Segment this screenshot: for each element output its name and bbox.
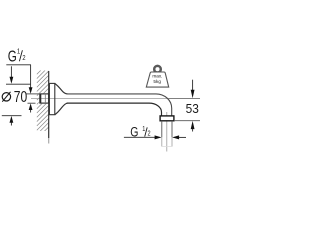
dimension 53: bottom arrow [192, 129, 194, 132]
dimension 53: top reference line (axis extension darker part) [168, 98, 200, 100]
dimension diameter 70: top extension line [6, 83, 30, 85]
dimension G1/2 bottom: left arrow from right side [172, 135, 179, 139]
dimension 53: top arrow [192, 80, 194, 91]
dimension G1/2 top-left: underline leader [6, 64, 31, 66]
dimension diameter 70: diameter symbol [2, 93, 10, 101]
svg-text:2: 2 [22, 54, 26, 62]
flange base plate [49, 83, 54, 114]
thread cutout background [39, 93, 49, 103]
wall surface line [48, 71, 50, 138]
svg-text:53: 53 [186, 102, 199, 116]
svg-text:1: 1 [142, 125, 146, 133]
collar band on outlet [160, 116, 174, 121]
wall hatching [37, 57, 50, 152]
dimension diameter 70: bottom arrow [10, 116, 14, 123]
flange bell top profile [55, 84, 68, 94]
vertical centerline of outlet [166, 112, 168, 152]
svg-text:max.: max. [152, 73, 162, 78]
svg-text:G: G [8, 48, 17, 65]
dimension G1/2 top-left: up arrow to thread bottom [29, 103, 33, 110]
svg-text:70: 70 [14, 88, 28, 106]
dimension diameter 70: top arrow [10, 66, 12, 77]
max 5kg weight icon: handle ring [154, 66, 161, 73]
pipe top contour with outer bend arc [67, 94, 172, 116]
svg-text:1: 1 [17, 48, 21, 56]
svg-text:5kg: 5kg [153, 79, 161, 84]
dimension 53: bottom reference line [174, 120, 200, 122]
outlet pipe below band [161, 121, 163, 137]
pipe bottom contour with inner bend arc [67, 103, 162, 116]
svg-text:2: 2 [148, 130, 152, 138]
dimension G1/2 top-left: down arrow to thread top [29, 87, 33, 93]
thread G1/2 behind wall [40, 94, 49, 104]
centerline (pipe axis) [31, 98, 200, 100]
max 5kg weight icon: body [146, 72, 168, 87]
flange bell bottom profile [55, 103, 68, 115]
dimension diameter 70: bottom extension line [2, 115, 22, 117]
dimension G1/2 bottom: leader with right arrow [124, 136, 156, 138]
